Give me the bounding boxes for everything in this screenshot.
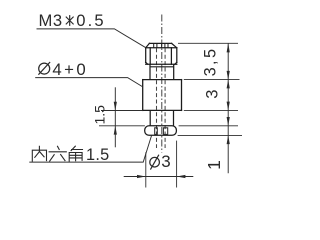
left dimension 1.5 xyxy=(114,87,116,147)
leader M3*0.5 xyxy=(37,29,146,48)
pill interior bar right xyxy=(163,128,167,135)
bottom flange pill Ø3 xyxy=(145,126,177,136)
asterisk star xyxy=(66,15,74,26)
neck xyxy=(150,64,174,79)
svg-text:0.5: 0.5 xyxy=(76,11,105,30)
hidden line left (hex socket) xyxy=(156,48,158,148)
label Ø4+0 xyxy=(38,62,50,75)
centerline xyxy=(161,15,163,153)
hidden line right (hex socket) xyxy=(164,48,166,148)
extension line pill right down xyxy=(176,141,178,188)
arrows right chain xyxy=(227,43,230,144)
svg-text:M3: M3 xyxy=(39,11,63,30)
extension line body bottom xyxy=(184,109,238,111)
char jiao xyxy=(69,146,82,161)
svg-text:1: 1 xyxy=(204,160,224,170)
extension line left body bottom xyxy=(101,110,143,112)
char liu xyxy=(49,146,66,161)
body Ø4 xyxy=(143,80,182,111)
svg-text:3,5: 3,5 xyxy=(202,47,220,77)
char nei xyxy=(32,146,46,161)
bottom dimension Ø3 xyxy=(124,176,194,178)
svg-text:3: 3 xyxy=(203,90,221,99)
extension line pill top right xyxy=(179,125,238,127)
head top band ticks xyxy=(154,44,168,48)
leader hex-socket label xyxy=(29,135,151,162)
extension line socket depth xyxy=(99,125,145,127)
extension line pill left down xyxy=(145,152,147,187)
svg-text:3: 3 xyxy=(161,152,170,171)
label hex-socket 1.5 (Chinese: nei liu jiao) xyxy=(32,146,82,161)
head outline (M3 thread section) xyxy=(146,43,177,64)
svg-text:1.5: 1.5 xyxy=(92,105,108,125)
extension line body top xyxy=(184,79,240,81)
lower neck xyxy=(150,110,173,125)
under-head collar line xyxy=(150,66,174,68)
svg-text:1.5: 1.5 xyxy=(86,146,110,164)
arrows left dim xyxy=(114,102,117,135)
extension line pill bottom right xyxy=(178,134,242,136)
leader Ø4+0 xyxy=(35,78,143,87)
pill interior bar left xyxy=(155,128,158,135)
right dimension line chain xyxy=(227,43,229,173)
arrows bottom dim xyxy=(137,175,185,178)
svg-text:4+0: 4+0 xyxy=(52,60,88,79)
label diameter-3 xyxy=(150,155,160,170)
extension line head top xyxy=(178,42,238,44)
